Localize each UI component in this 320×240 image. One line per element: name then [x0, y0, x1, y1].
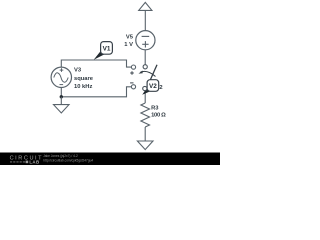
svg-text:R3: R3 — [151, 106, 159, 112]
svg-text:V1: V1 — [103, 46, 111, 53]
ground under R3 — [137, 141, 153, 150]
wire from V5 bottom to switch top terminal — [144, 50, 146, 65]
svg-text:V2: V2 — [149, 83, 157, 90]
CircuitLab logo — [10, 156, 44, 165]
wire bottom rail from V3 to control - — [61, 87, 131, 97]
svg-text:http://circuitlab.com/cpk5gsf2: http://circuitlab.com/cpk5gsf247gu4 — [43, 158, 93, 162]
switch SW2 actuation arrow — [139, 71, 156, 77]
watermark bar — [0, 153, 220, 166]
switch SW2 blade — [144, 65, 157, 94]
wire junction to ground V3 — [60, 97, 62, 105]
switch SW2 top terminal — [143, 65, 147, 69]
power flag triangle (rotated ground) above V5 — [139, 2, 152, 10]
label V5 1 V — [124, 35, 133, 48]
switch SW2 bottom terminal — [143, 86, 147, 90]
switch control - terminal — [131, 85, 135, 89]
switch control + terminal — [131, 65, 135, 69]
wire switch bottom to R3 — [144, 91, 146, 103]
voltage source V3 (function generator) — [51, 67, 71, 87]
svg-text:1 V: 1 V — [124, 42, 133, 48]
watermark text — [43, 154, 93, 162]
junction dot at V3 bottom — [60, 95, 63, 98]
label R3 100 Ohm — [151, 106, 166, 119]
switch control + sign — [130, 71, 134, 75]
wire R3 to ground — [144, 127, 146, 141]
resistor R3 — [141, 103, 150, 127]
node flag V2 — [142, 80, 159, 95]
node flag V1 — [94, 42, 113, 60]
svg-text:100 Ω: 100 Ω — [151, 112, 166, 118]
svg-text:2: 2 — [159, 85, 162, 91]
svg-text:10 kHz: 10 kHz — [74, 84, 92, 90]
label V3 square 10 kHz — [74, 68, 94, 90]
svg-text:LAB: LAB — [29, 160, 39, 165]
svg-text:square: square — [74, 76, 94, 82]
wire from power triangle to V5 top — [144, 10, 146, 30]
ground under V3 — [54, 105, 70, 113]
wire top rail from V3 to control + — [61, 60, 131, 67]
switch control - sign — [130, 82, 133, 84]
voltage source V5 — [136, 31, 155, 50]
svg-text:V5: V5 — [126, 35, 134, 41]
svg-text:V3: V3 — [74, 68, 82, 74]
